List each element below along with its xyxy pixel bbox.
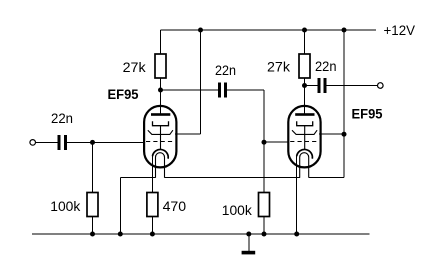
V2 control grid dashed [290,141,319,143]
wire rail to R2 top [304,30,306,54]
tube V2 EF95 [288,106,320,178]
wire heater ground link to V1 heater left leg [120,177,155,179]
wire V1 plate lead [160,90,162,114]
V2 screen lead down [304,126,306,150]
wire ground stub [248,234,250,251]
wire heater series link V1 to V2 [165,177,300,179]
V2 cathode arc [297,149,313,158]
ground symbol [242,251,256,255]
node plate 2 [302,83,307,88]
V1 heater [156,153,165,178]
svg-text:27k: 27k [267,59,291,75]
node junction rail-R2 [302,28,307,33]
svg-text:27k: 27k [123,59,147,75]
V1 suppressor boat [148,130,173,134]
wire grid node 1 down to R3 [92,142,94,192]
wire R2 bottom to plate node 2 [304,78,306,86]
svg-text:EF95: EF95 [108,86,139,102]
wire V1 screen to vertical [175,133,201,135]
V2 anode bar [295,113,314,116]
V2 screen grid cup [297,121,313,125]
wire R3 bottom to rail [92,217,94,235]
V1 anode bar [151,113,170,116]
svg-text:100k: 100k [222,202,253,218]
wire +12V top rail [161,29,377,31]
resistor R3 100k [87,193,98,217]
resistor R2 27k [299,54,310,78]
wire rail to R1 top [160,30,162,54]
wire C1 to grid node 1 [67,141,93,143]
wire grid node 1 to V1 grid [93,141,145,143]
wire ground rail [32,233,370,235]
wire screen line V1 from rail [200,30,202,134]
svg-text:470: 470 [163,198,187,214]
node junction rail-heater drop [342,28,347,33]
wire C3 to output terminal [327,85,378,87]
node plate 1 [158,88,163,93]
resistor R4 470 [147,193,158,217]
wire V2 cathode leg to ground rail [296,156,298,234]
resistor R1 27k [155,54,166,78]
node rail-ground stub [246,232,251,237]
node rail-V2 cathode [294,232,299,237]
wire ground riser for heater [119,178,121,234]
wire V2 screen to heater drop [319,133,344,135]
svg-text:22n: 22n [51,110,73,126]
svg-text:22n: 22n [315,58,337,74]
output terminal [378,83,384,89]
wire V2 plate lead [304,86,306,114]
wire input terminal to C1 [36,141,58,143]
input terminal [30,140,36,146]
tube V1 EF95 [144,106,176,178]
resistor R5 100k [259,193,270,217]
node rail-R3 [90,232,95,237]
V1 control grid dashed [146,141,175,143]
node junction rail-screen line [198,28,203,33]
svg-text:EF95: EF95 [352,106,383,122]
wire C2 to corner [227,89,264,91]
node rail-heater riser [118,232,123,237]
V1 screen grid cup [153,121,169,125]
V2 envelope [288,106,320,167]
wire grid node 2 down to R5 [263,142,265,192]
wire plate node 2 to C3 [305,85,318,87]
wire corner down to grid node 2 [263,90,265,142]
wire R5 bottom to rail [263,217,265,235]
node grid 1 [90,140,95,145]
node grid 2 [262,140,267,145]
V2 suppressor boat [292,130,317,134]
svg-text:22n: 22n [215,62,236,78]
node rail-R4 [150,232,155,237]
wire grid node 2 to V2 grid [264,141,289,143]
V1 cathode arc [153,149,169,158]
node rail-R5 [262,232,267,237]
wire V1 cathode leg to R4 [151,156,153,193]
capacitor C2 22n plates [218,83,227,98]
wire R1 bottom to plate node [160,78,162,90]
wire R4 bottom to rail [151,217,153,235]
capacitor C1 22n plates [58,135,67,150]
V1 envelope [144,106,176,167]
wire plate node to C2 [161,89,219,91]
V1 screen lead down [160,126,162,150]
svg-text:100k: 100k [50,198,81,214]
wire heater drop corner to V2 heater right leg [309,177,344,179]
wire +12V heater drop [343,30,345,178]
capacitor C3 22n plates [318,78,327,93]
V2 heater [300,153,309,178]
svg-text:+12V: +12V [384,22,416,38]
node screen 2 on heater drop [342,132,347,137]
